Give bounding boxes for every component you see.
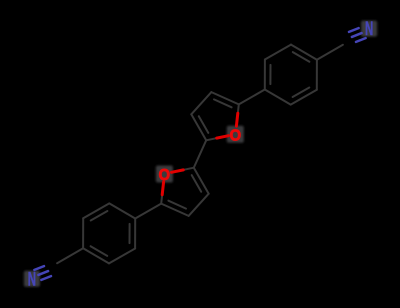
central bifuran bond C5-C2': [194, 140, 206, 167]
nitrile 2 triple bond line c: [34, 266, 44, 270]
furan ring 1 bond C4-C5: [191, 114, 206, 140]
benzene ring 2 edge G3-G4: [82, 218, 84, 248]
svg-text:O: O: [230, 127, 241, 145]
atom label O2: [159, 167, 170, 185]
furan ring 2 bond C5b-O2: [165, 168, 194, 174]
furan ring 2 bond C3b-C4b: [189, 194, 209, 216]
benzene ring 1 edge H3-H4: [316, 60, 318, 90]
benzene ring 2 inner double g01: [129, 224, 131, 243]
bond furan2 C2b to phenyl2 Cipso: [135, 204, 161, 219]
svg-text:N: N: [365, 19, 373, 40]
atom label O1: [230, 127, 241, 145]
red half-bond O1 toward C5: [217, 136, 229, 138]
furan ring 1 bond C3-C4: [191, 92, 211, 114]
furan ring 2 bond C2b-C3b: [161, 204, 188, 216]
benzene ring 1 inner double e45: [293, 88, 310, 98]
benzene ring 2 edge G0-G1: [134, 219, 136, 249]
benzene ring 1 edge H4-H5: [291, 90, 317, 105]
red half-bond O1 toward C2: [236, 113, 237, 126]
benzene ring 1 edge H0-H1: [264, 60, 266, 90]
label backdrop O2: [156, 166, 173, 183]
bond phenyl H3 to nitrile C: [317, 45, 343, 60]
atom label N top: [365, 19, 373, 40]
furan ring 1 inner double C2=C3: [214, 99, 232, 107]
svg-text:N: N: [28, 270, 36, 291]
nitrile 2 triple bond line a: [41, 276, 51, 280]
furan ring 2 bond O2-C2b: [161, 174, 164, 204]
benzene ring 1 inner double e23: [293, 52, 310, 62]
nitrile 1 triple bond line c: [356, 38, 366, 42]
label backdrop O1: [227, 126, 244, 143]
benzene ring 1 edge H5-H0: [265, 90, 291, 105]
bond phenyl2 G3 to nitrile C2: [57, 248, 83, 263]
nitrile 2 triple bond line b: [38, 271, 48, 275]
benzene ring 2 edge G2-G3: [83, 248, 109, 263]
red half-bond O2 toward C2b: [162, 182, 163, 195]
red half-bond O2 toward C5b: [172, 170, 184, 172]
furan ring 1 bond C5-O1: [206, 134, 235, 140]
label backdrop N top: [361, 21, 377, 37]
bond furan1 C2 to phenyl Cipso: [239, 90, 265, 105]
nitrile 1 triple bond line b: [352, 33, 362, 37]
furan ring 2 inner double C2b=C3b: [168, 201, 186, 209]
svg-text:O: O: [159, 167, 170, 185]
furan ring 2 bond C4b-C5b: [194, 168, 209, 194]
benzene ring 2 inner double g23: [91, 246, 108, 256]
benzene ring 1 edge H1-H2: [265, 45, 291, 60]
nitrile 1 triple bond line a: [349, 28, 359, 32]
label backdrop N bottom: [24, 271, 40, 287]
furan ring 2 inner double C4b=C5b: [192, 175, 202, 192]
benzene ring 2 edge G1-G2: [109, 249, 135, 264]
furan ring 1 bond C2-C3: [211, 92, 238, 104]
benzene ring 2 edge G5-G0: [109, 203, 135, 218]
furan ring 1 inner double C4=C5: [199, 116, 209, 133]
benzene ring 1 edge H2-H3: [291, 45, 317, 60]
atom label N bottom: [28, 270, 36, 291]
furan ring 1 bond O1-C2: [236, 104, 239, 134]
benzene ring 2 edge G4-G5: [83, 203, 109, 218]
benzene ring 2 inner double g45: [91, 211, 108, 221]
benzene ring 1 inner double e01: [269, 65, 271, 84]
